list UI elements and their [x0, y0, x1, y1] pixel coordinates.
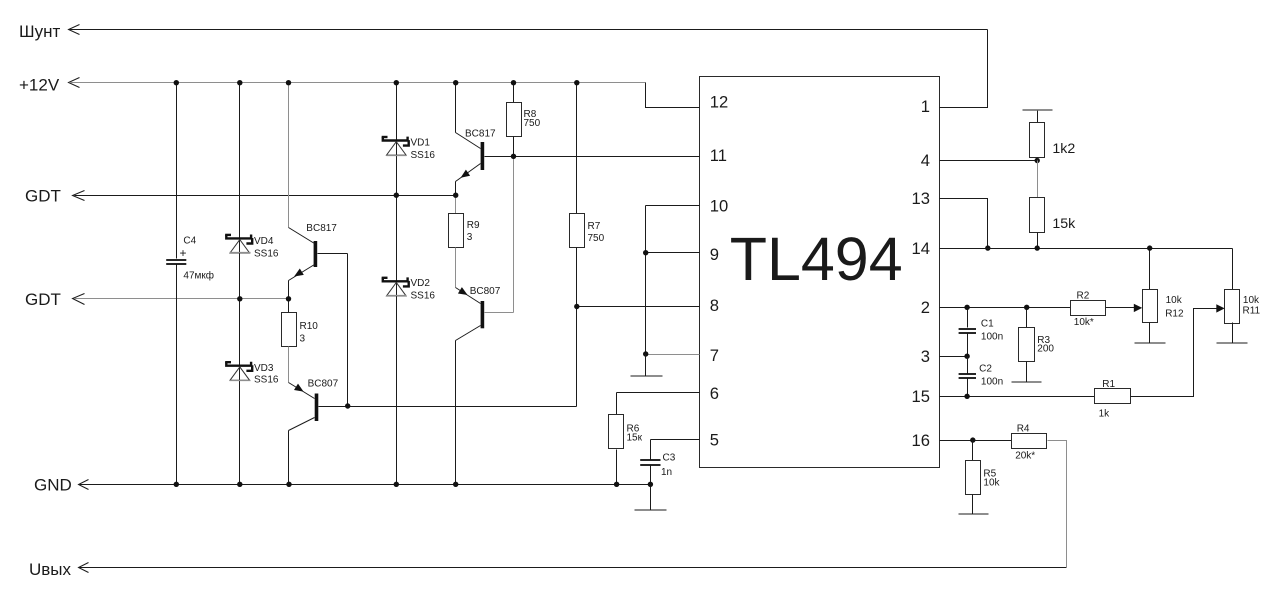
svg-text:100n: 100n: [981, 377, 1003, 388]
svg-text:11: 11: [710, 146, 727, 165]
node junction pin11-R8-bases: [511, 154, 516, 159]
svg-text:15: 15: [912, 387, 930, 406]
resistor R2: [1071, 301, 1106, 316]
capacitor C3: [650, 440, 652, 460]
svg-text:10: 10: [710, 197, 728, 216]
svg-text:R12: R12: [1165, 308, 1184, 319]
svg-text:100n: 100n: [981, 332, 1003, 343]
wire left pair base tie vertical: [347, 254, 349, 407]
svg-text:750: 750: [524, 118, 541, 129]
svg-text:4: 4: [921, 151, 930, 170]
svg-text:9: 9: [710, 245, 719, 264]
node junction pin8-R7: [574, 304, 579, 309]
power rail stub above 1k2: [1023, 109, 1053, 111]
potentiometer R12: [1149, 249, 1151, 290]
svg-text:BC807: BC807: [308, 379, 339, 390]
resistor R8: [513, 83, 515, 103]
wire VD1-VD2 column: [396, 83, 398, 485]
node junction 15k-pin14: [1035, 245, 1040, 250]
svg-text:14: 14: [912, 239, 930, 258]
svg-text:+: +: [180, 246, 187, 260]
svg-text:1n: 1n: [661, 467, 672, 478]
svg-text:VD1: VD1: [411, 138, 431, 149]
svg-text:7: 7: [710, 346, 719, 365]
wire middle pair base tie vertical: [513, 157, 515, 313]
wire R2 to R12 wiper: [1106, 307, 1137, 309]
svg-text:R7: R7: [588, 221, 601, 232]
svg-text:47мкф: 47мкф: [183, 269, 214, 281]
resistor R6: [616, 393, 618, 415]
svg-text:BC807: BC807: [470, 286, 501, 297]
svg-text:R4: R4: [1017, 423, 1030, 434]
wire R4 to Uвых: [1048, 441, 1067, 568]
svg-text:3: 3: [921, 347, 930, 366]
diode VD4 (schottky): [225, 235, 252, 254]
wire pin12 feed from +12V rail: [646, 83, 700, 108]
svg-text:R10: R10: [300, 321, 319, 332]
svg-text:GDT: GDT: [25, 187, 61, 206]
svg-text:13: 13: [912, 189, 930, 208]
potentiometer R11: [1225, 290, 1240, 324]
wire pin14 row: [940, 248, 1233, 250]
ground symbol below R11: [1217, 342, 1248, 344]
wire GDT lower rail: [75, 298, 289, 300]
svg-text:10k: 10k: [1243, 295, 1260, 306]
svg-text:6: 6: [710, 384, 719, 403]
node junction pin15-C2: [964, 394, 969, 399]
wire pin9 row: [646, 252, 700, 254]
R12 wiper arrow: [1134, 304, 1142, 312]
resistor R1: [1095, 389, 1131, 404]
svg-text:2: 2: [921, 298, 930, 317]
node junction dots GND rail: [174, 482, 179, 487]
node junction pin14-R12: [1147, 245, 1152, 250]
ground symbol below R5: [959, 513, 989, 515]
ground symbol below R12: [1135, 342, 1166, 344]
node junction pin2-C1: [964, 305, 969, 310]
svg-text:10k: 10k: [983, 478, 1000, 489]
node junction dots GDT lower: [237, 296, 242, 301]
wire pin10 row: [646, 205, 700, 207]
transistor Q1 BC817 (left): [289, 83, 348, 299]
svg-text:VD2: VD2: [411, 278, 431, 289]
svg-text:+12V: +12V: [19, 75, 60, 94]
svg-text:1k2: 1k2: [1052, 141, 1075, 157]
svg-text:R9: R9: [467, 220, 480, 231]
wire GDT upper rail: [75, 195, 456, 197]
wire pin5 row: [651, 439, 700, 441]
svg-text:GND: GND: [34, 475, 72, 494]
wire pin16 row: [940, 440, 1012, 442]
node junction dots +12V rail: [174, 80, 179, 85]
node Шунт arrow: [69, 25, 80, 35]
svg-text:15k: 15k: [1052, 216, 1076, 232]
svg-text:Шунт: Шунт: [19, 22, 60, 41]
svg-text:SS16: SS16: [254, 375, 279, 386]
wire 1k2 to 15k: [1037, 158, 1039, 161]
svg-text:3: 3: [300, 334, 306, 345]
wire pin15 row: [940, 396, 1095, 398]
resistor R5: [972, 441, 974, 461]
svg-text:C4: C4: [183, 235, 196, 246]
wire pins 10-9-7 vertical tie: [645, 206, 647, 355]
svg-text:VD3: VD3: [254, 363, 274, 374]
wire pin6 row: [617, 392, 700, 394]
svg-text:1: 1: [921, 97, 930, 116]
svg-text:GDT: GDT: [25, 290, 61, 309]
ground symbol below pin7: [645, 355, 647, 376]
transistor Q2 BC817 (middle): [456, 83, 485, 196]
resistor 15k: [1030, 198, 1045, 233]
wire VD4-VD3 column: [239, 83, 241, 485]
svg-text:TL494: TL494: [730, 225, 903, 293]
node +12V arrow: [69, 78, 80, 88]
svg-text:R11: R11: [1243, 305, 1261, 316]
svg-text:1k: 1k: [1099, 409, 1111, 420]
svg-text:200: 200: [1037, 344, 1054, 355]
svg-text:10k: 10k: [1166, 295, 1183, 306]
capacitor C4 column wires: [176, 83, 178, 259]
node junction pin9: [643, 250, 648, 255]
svg-text:Uвых: Uвых: [29, 560, 72, 579]
wire Шунт rail: [70, 29, 988, 31]
diode VD2 (schottky): [382, 277, 409, 296]
svg-text:5: 5: [710, 431, 719, 450]
wire pin1 row to Шунт rail: [940, 30, 988, 108]
node junction left bases: [345, 403, 350, 408]
node junction pin3-C1-C2: [964, 354, 969, 359]
node junction pin2-R3: [1024, 305, 1029, 310]
wire GND rail: [79, 484, 651, 486]
R11 wiper arrow: [1216, 304, 1224, 312]
svg-text:SS16: SS16: [411, 291, 436, 302]
wire pin3 row: [940, 356, 968, 358]
svg-text:C1: C1: [981, 319, 994, 330]
svg-text:BC817: BC817: [306, 223, 337, 234]
wire pin13 row drop to pin14 row: [940, 199, 988, 249]
wire pin7 row: [646, 354, 700, 356]
node junction pin7: [643, 351, 648, 356]
wire pin4 row: [940, 160, 1038, 162]
svg-text:10k*: 10k*: [1074, 317, 1094, 328]
svg-text:BC817: BC817: [465, 128, 496, 139]
svg-text:SS16: SS16: [254, 248, 279, 259]
diode VD1 (schottky): [382, 137, 409, 156]
resistor 1k2: [1030, 123, 1045, 158]
op-amp U1 TL494 body: [700, 77, 940, 468]
svg-text:15к: 15к: [627, 433, 643, 444]
node junction pin16-R5: [970, 437, 975, 442]
resistor R3: [1026, 308, 1028, 328]
capacitor C2: [967, 357, 969, 374]
svg-text:C2: C2: [979, 363, 992, 374]
node junction pin13-pin14: [985, 245, 990, 250]
wire pin8 row: [577, 306, 700, 308]
svg-text:12: 12: [710, 93, 728, 112]
node GND arrow: [79, 480, 89, 490]
node GDT arrow (lower): [73, 294, 85, 305]
wire pin8 leg down to left base line: [576, 307, 578, 407]
wire pin14 drop to R11: [1232, 249, 1234, 290]
svg-text:750: 750: [588, 233, 605, 244]
svg-text:SS16: SS16: [411, 150, 436, 161]
node junction pin4-1k2-15k: [1035, 158, 1040, 163]
svg-text:C3: C3: [663, 453, 676, 464]
svg-text:8: 8: [710, 296, 719, 315]
svg-text:16: 16: [912, 431, 930, 450]
diode VD3 (schottky): [225, 362, 252, 381]
wire +12V rail: [70, 82, 646, 84]
svg-text:VD4: VD4: [254, 236, 274, 247]
transistor Q4 BC807 (middle): [456, 287, 514, 484]
svg-text:20k*: 20k*: [1015, 451, 1035, 462]
capacitor C1: [967, 308, 969, 328]
svg-text:3: 3: [467, 232, 473, 243]
capacitor C4 plates: [166, 259, 186, 261]
ground symbol below C3: [650, 485, 652, 510]
node Uвых arrow: [79, 563, 89, 573]
wire pin11 row to Q2 base: [485, 156, 700, 158]
ground symbol below R3: [1012, 381, 1042, 383]
wire 15k to pin14 row: [1037, 233, 1039, 249]
transistor Q3 BC807 (left): [289, 383, 577, 485]
svg-text:R2: R2: [1077, 290, 1090, 301]
resistor R9: [455, 196, 457, 214]
wire R1 to R11 wiper: [1131, 309, 1219, 397]
resistor R10: [288, 299, 290, 313]
wire pin2 row: [940, 307, 1071, 309]
node junction dots GDT upper: [394, 193, 399, 198]
resistor R7: [576, 83, 578, 214]
node GDT arrow (upper): [73, 191, 85, 201]
wire Uвых rail: [79, 567, 1067, 569]
resistor R4: [1012, 434, 1047, 449]
